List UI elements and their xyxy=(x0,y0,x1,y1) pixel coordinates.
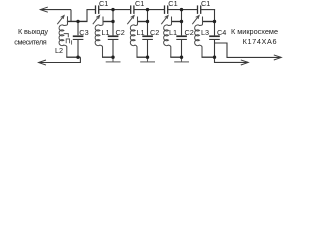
capacitor C2 (tank4) xyxy=(176,35,187,57)
svg-text:L1: L1 xyxy=(102,28,110,37)
wire: tank4 rail xyxy=(171,21,182,23)
wire: output tap from C4 to IC xyxy=(215,43,282,57)
label winding tap n1 xyxy=(66,39,71,45)
svg-text:К микросхеме: К микросхеме xyxy=(231,27,278,36)
inductor L1 (tank3 coil with tuning arrow) xyxy=(127,16,137,58)
wire: riser/stem tank2 xyxy=(112,10,114,36)
wire: tank3 rail xyxy=(137,21,148,23)
wire: tank1 bottom rail xyxy=(66,56,80,58)
svg-text:L1: L1 xyxy=(169,28,177,37)
capacitor C1 (fourth) plates xyxy=(198,5,201,14)
node: arrowhead left bottom xyxy=(39,60,47,65)
svg-text:C3: C3 xyxy=(79,28,88,37)
wire: tank1 riser to coupling chain xyxy=(86,9,88,21)
svg-text:C1: C1 xyxy=(99,0,108,8)
svg-text:L1: L1 xyxy=(137,28,145,37)
capacitor C1 (third) plates xyxy=(165,5,168,14)
capacitor C1 (second) plates xyxy=(131,5,134,14)
wire: tank1 bottom drop and return lead to mixer xyxy=(39,57,81,62)
capacitor C4 (tank5 output) xyxy=(209,35,220,57)
wire: drop from rail end to tank5 xyxy=(214,9,216,35)
svg-text:C2: C2 xyxy=(185,28,194,37)
node: junction dots tank rails xyxy=(76,20,216,24)
inductor L3 (tank5 coil with tuning arrow) xyxy=(192,16,202,58)
wire: tank5 rail xyxy=(202,21,215,23)
inductor L1 (tank2 coil with tuning arrow) xyxy=(93,16,103,58)
capacitor C3 (tank1) xyxy=(73,21,84,57)
capacitor C2 (tank2) xyxy=(108,35,119,57)
svg-text:C1: C1 xyxy=(201,0,210,8)
wire: tank5 bottom rail xyxy=(202,56,215,58)
wire: tank5 bottom drop and lower output lead xyxy=(215,57,249,62)
ground (tank3) xyxy=(140,57,155,62)
ground (tank4) xyxy=(174,57,189,62)
node: junction dots top rail xyxy=(111,8,183,11)
wire: tank2 bottom rail xyxy=(102,56,114,58)
wire: top coupling rail segments xyxy=(87,9,216,11)
svg-text:L2: L2 xyxy=(55,46,63,55)
capacitor C1 (first) plates xyxy=(96,5,99,14)
wire: riser/stem tank3 xyxy=(147,10,149,36)
wire: tank1 top rail xyxy=(67,20,88,22)
svg-text:C2: C2 xyxy=(116,28,125,37)
inductor L1 (tank4 coil with tuning arrow) xyxy=(161,16,171,58)
svg-text:смесителя: смесителя xyxy=(14,37,46,46)
node: arrowhead right lower output xyxy=(241,60,249,65)
ground (tank2) xyxy=(106,57,121,62)
svg-text:C1: C1 xyxy=(135,0,144,8)
inductor L2 (tank1 coil with tuning arrow) xyxy=(57,16,67,58)
svg-text:К174ХА6: К174ХА6 xyxy=(243,37,277,46)
wire: input drop to tank1 rail xyxy=(70,10,72,22)
node: input arrowhead left top xyxy=(40,7,48,12)
wire: input top lead to mixer xyxy=(41,9,71,11)
svg-text:L3: L3 xyxy=(201,28,209,37)
svg-text:C4: C4 xyxy=(217,28,226,37)
wire: tank3 bottom rail xyxy=(137,56,149,58)
svg-text:C2: C2 xyxy=(150,28,159,37)
svg-text:C1: C1 xyxy=(168,0,177,8)
node: arrowhead right upper output xyxy=(274,55,282,60)
capacitor C2 (tank3) xyxy=(142,35,153,57)
wire: tank2 rail xyxy=(103,21,114,23)
wire: tank4 bottom rail xyxy=(170,56,182,58)
node: junction dots bottom rails xyxy=(76,56,216,59)
svg-text:К выходу: К выходу xyxy=(18,27,48,36)
wire: riser/stem tank4 xyxy=(181,10,183,36)
wire: tap on L2 xyxy=(64,34,69,38)
